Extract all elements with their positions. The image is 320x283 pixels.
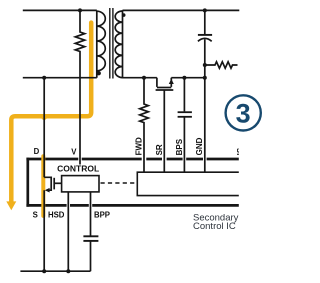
capacitor C3 BPP bypass plate bottom bbox=[83, 240, 98, 242]
wire yellow highlighted current path bbox=[11, 23, 91, 202]
transistor Q1 gate plate bbox=[53, 178, 55, 190]
node junction secondary rail / FWD bbox=[142, 76, 146, 80]
svg-text:3: 3 bbox=[236, 99, 251, 129]
svg-text:FWD: FWD bbox=[135, 137, 144, 155]
wire SR pin lead bbox=[163, 90, 165, 172]
transistor Q2 SR FET left stub bbox=[156, 78, 158, 87]
svg-text:BPS: BPS bbox=[175, 138, 184, 155]
capacitor C2 BPS plate top bbox=[178, 111, 192, 113]
svg-text:GND: GND bbox=[195, 137, 204, 155]
wire secondary rail right segment bbox=[171, 77, 205, 79]
transformer T1 secondary winding bbox=[115, 11, 122, 78]
node primary phasing dot bbox=[97, 71, 101, 75]
transformer T1 core bar right bbox=[112, 8, 114, 79]
node junction snubber tap bbox=[203, 63, 207, 67]
node junction secondary rail / GND column bbox=[203, 76, 207, 80]
resistor R3 snubber bbox=[205, 62, 238, 68]
label pin IS clipped at figure edge bbox=[236, 147, 245, 155]
wire GND pin column lower bbox=[204, 39, 206, 172]
node junction top bus / R1 bbox=[78, 8, 82, 12]
IC U1 gate driver block bbox=[62, 176, 99, 192]
wire C3 lower lead bbox=[90, 241, 92, 271]
svg-text:S: S bbox=[33, 210, 38, 219]
transformer T1 primary lead bbox=[96, 10, 98, 77]
IC U1 secondary control IC outer package box bbox=[26, 158, 238, 207]
transistor Q2 source arrow bbox=[169, 79, 174, 84]
resistor R2 FWD sense bbox=[140, 78, 149, 173]
transistor Q2 SR FET channel bar bbox=[157, 87, 171, 89]
svg-text:BPP: BPP bbox=[94, 210, 110, 219]
wire GND output column upper bbox=[204, 10, 206, 34]
svg-text:SR: SR bbox=[155, 144, 164, 155]
wire BPS pin lead bbox=[183, 117, 185, 172]
transistor Q1 source arrow bbox=[45, 188, 50, 193]
svg-text:CONTROL: CONTROL bbox=[57, 164, 99, 174]
capacitor C1 output curved plate bbox=[198, 38, 212, 41]
transistor Q1 internal HV MOSFET channel bbox=[44, 177, 51, 190]
capacitor C2 BPS plate bottom bbox=[178, 116, 192, 118]
wire dashed control link bbox=[101, 182, 138, 184]
wire bottom return rail bbox=[20, 270, 90, 272]
wire BPS upper lead bbox=[183, 78, 185, 112]
wire HSD pin drop bbox=[67, 192, 69, 271]
node yellow junction dot at D branch bbox=[41, 114, 47, 120]
capacitor C3 BPP bypass plate top bbox=[83, 235, 98, 237]
wire BPP pin drop bbox=[90, 192, 92, 236]
wire primary return rail bbox=[23, 77, 97, 79]
node junction top bus / C1 column bbox=[203, 8, 207, 12]
resistor R1 bias feed to V pin bbox=[75, 10, 84, 164]
wire secondary rail left segment bbox=[123, 77, 157, 79]
node secondary phasing dot bbox=[122, 13, 126, 17]
wire yellow arrowhead bbox=[6, 201, 16, 210]
wire top secondary output bus bbox=[123, 9, 240, 11]
svg-text:Control IC: Control IC bbox=[193, 221, 236, 232]
capacitor C1 output plate top bbox=[198, 34, 212, 36]
svg-text:HSD: HSD bbox=[48, 210, 65, 219]
svg-text:V: V bbox=[71, 148, 77, 157]
node junction bottom rail / S bbox=[42, 269, 46, 273]
IC U1 inner secondary controller block bbox=[137, 172, 239, 195]
transistor Q2 SR FET right stub bbox=[170, 78, 172, 87]
wire white pin-crossing halos on package edges bbox=[67, 157, 207, 208]
node junction bottom rail / HSD bbox=[66, 269, 70, 273]
transformer T1 core bar left bbox=[109, 8, 111, 79]
wire top primary bus bbox=[23, 9, 97, 11]
node junction primary rail / D pin bbox=[42, 76, 46, 80]
svg-text:D: D bbox=[34, 147, 40, 156]
wire D pin drop bbox=[43, 78, 45, 178]
wire Q1 gate lead bbox=[54, 182, 61, 184]
transformer T1 secondary lead bbox=[122, 10, 124, 77]
wire yellow internal D-to-S path bbox=[41, 156, 45, 216]
transformer T1 primary winding bbox=[97, 11, 106, 71]
transistor Q2 SR FET gate plate bbox=[156, 89, 174, 91]
node callout circle 3 bbox=[226, 95, 261, 130]
wire S pin drop bbox=[43, 190, 45, 271]
node junction secondary rail / BPS bbox=[182, 76, 186, 80]
